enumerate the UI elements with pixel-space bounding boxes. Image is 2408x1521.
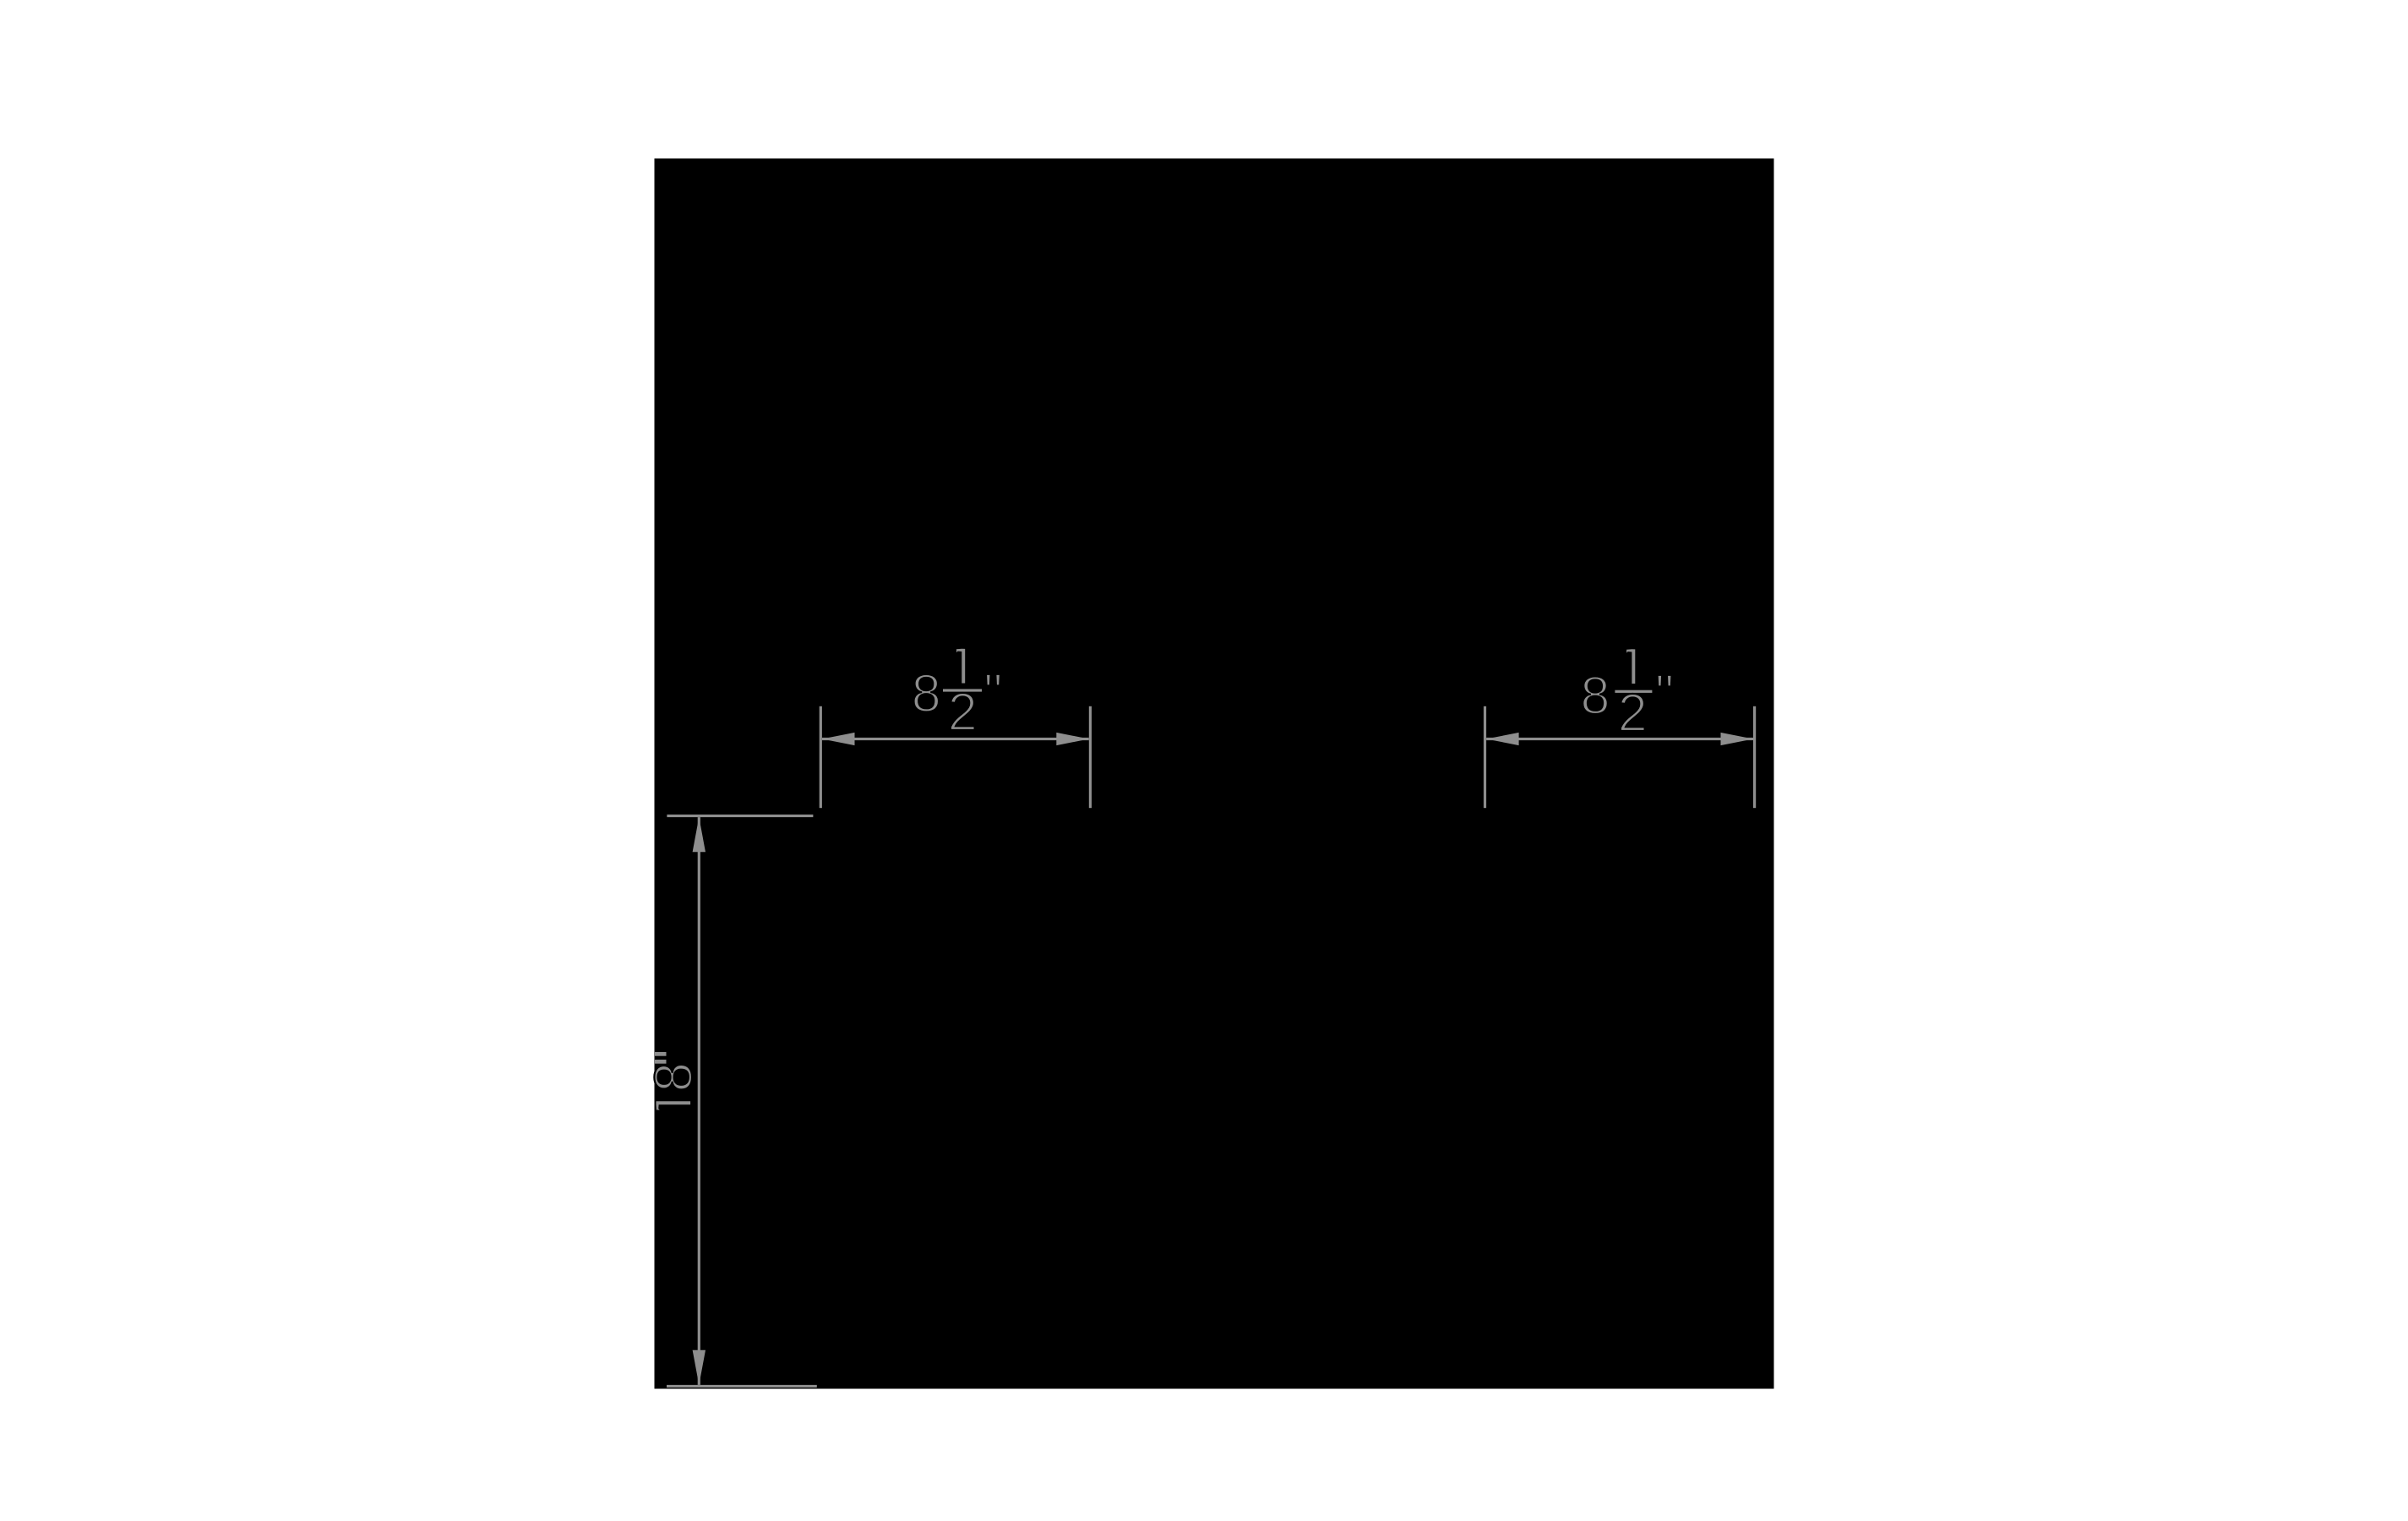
dimension D2 (top-right 8 1/2") extension line left [1484, 706, 1486, 808]
dimension D1 label fraction bar [943, 689, 982, 691]
dimension D3 label "1" (rotated, custom glyph) [656, 1101, 690, 1109]
dimension D1 extension line right [1089, 706, 1092, 808]
dimension D3 extension line bottom [667, 1385, 817, 1387]
dimension D3 label inch mark tick 1 (rotated) [655, 1052, 667, 1056]
dimension D1 arrowhead right [1056, 733, 1089, 745]
dimension D3 line [698, 817, 700, 1385]
dimension D1 label fraction numerator "1" (custom glyph) [956, 649, 965, 684]
svg-text:2: 2 [1618, 684, 1648, 743]
dimension D1 (top-left 8 1/2") extension line left [820, 706, 822, 808]
dimension D3 arrowhead top [693, 817, 706, 852]
dimension D2 label fraction numerator "1" (custom glyph) [1626, 649, 1635, 684]
black product silhouette rectangle [655, 159, 1774, 1389]
dimension D1 arrowhead left [822, 733, 855, 745]
dimension D2 arrowhead right [1721, 733, 1754, 745]
svg-text:2: 2 [948, 683, 978, 742]
dimension D3 (left 18") extension line top [667, 815, 813, 817]
svg-text:": " [983, 664, 1002, 723]
dimension D3 arrowhead bottom [693, 1350, 706, 1385]
dimension D1 line [822, 738, 1089, 740]
dimension D3 label inch mark tick 2 (rotated) [655, 1060, 667, 1064]
dimension D2 line [1486, 738, 1753, 740]
dimension D2 arrowhead left [1486, 733, 1519, 745]
svg-text:": " [1655, 664, 1674, 723]
svg-text:8: 8 [912, 664, 941, 723]
dimension D2 label fraction bar [1615, 690, 1652, 693]
svg-text:8: 8 [1581, 666, 1610, 725]
dimension D2 extension line right [1753, 706, 1756, 808]
svg-text:8: 8 [645, 1062, 704, 1092]
